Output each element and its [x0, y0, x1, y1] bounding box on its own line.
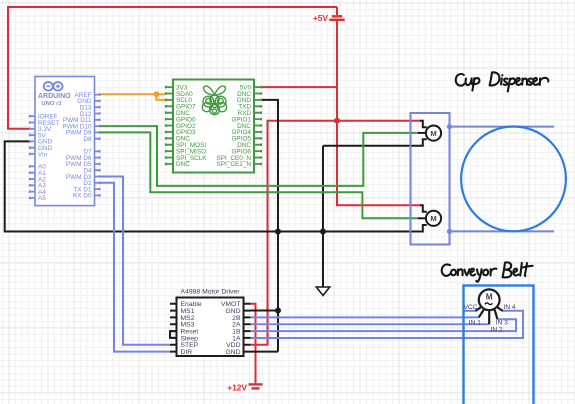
conveyor pin labels: [464, 304, 516, 334]
cup dispenser roller circle: [461, 126, 566, 231]
wire GND A4988 top-right pin: [251, 310, 279, 312]
arduino labels: [38, 92, 92, 202]
node dot top roller wire: [447, 124, 452, 129]
wire blue 1A to IN4: [251, 311, 524, 338]
wire blue 2A to IN2: [251, 323, 490, 325]
raspberry pi U2: [165, 80, 262, 173]
wire red RPi 5V0 to +5V rail: [262, 86, 337, 88]
svg-text:GND: GND: [225, 349, 240, 356]
svg-text:VCC: VCC: [464, 304, 478, 311]
svg-text:SPI_CE1_N: SPI_CE1_N: [217, 161, 252, 168]
wire orange branch to RPi SCL0: [156, 94, 165, 100]
junction dot orange: [153, 91, 159, 97]
conveyor motor M3: [479, 289, 500, 310]
wire GND from Arduino GND pin down and across bus: [5, 141, 421, 231]
node dot bottom roller wire: [447, 229, 452, 234]
handwritten label: Conveyor Belt: [442, 262, 533, 281]
wire GND A4988 bottom-right pin: [251, 351, 279, 353]
wire +5V supply drop to bus: [336, 7, 338, 15]
svg-text:M: M: [486, 292, 493, 301]
raspberry pi logo: [202, 86, 226, 115]
wire roller bottom: [450, 230, 555, 232]
wire red VMOT to +12V: [251, 304, 256, 384]
svg-text:Vin: Vin: [38, 151, 48, 158]
wire green Arduino D9 to motor2: [101, 132, 418, 218]
raspberry pi labels: [176, 84, 251, 168]
wire red VDD net to motor1: [251, 121, 422, 345]
junction dot +5V/VDD net: [334, 118, 340, 124]
handwritten label: Cup Dispenser: [456, 72, 549, 91]
svg-text:A5: A5: [38, 195, 46, 202]
A4988 pin labels: [181, 301, 241, 356]
svg-text:IN 3: IN 3: [496, 320, 508, 327]
wire blue Arduino D2 to DIR: [101, 183, 171, 352]
wire green Arduino D10 to motor1: [101, 126, 418, 186]
svg-text:IN 2: IN 2: [491, 327, 503, 334]
wire +5V vertical down to motor2 red feed: [337, 20, 421, 206]
wire blue 2B to IN1: [251, 316, 480, 318]
svg-text:ARDUINO: ARDUINO: [38, 93, 71, 100]
svg-text:M: M: [430, 214, 436, 223]
svg-text:IN 1: IN 1: [469, 320, 481, 327]
junction dot GND bus / RPi gnd: [275, 229, 281, 235]
svg-text:D8: D8: [83, 136, 92, 143]
ground symbol: [316, 287, 329, 296]
svg-text:UNO r3: UNO r3: [41, 101, 62, 107]
svg-text:DIR: DIR: [181, 349, 193, 356]
wire blue 1B to IN3: [251, 319, 517, 331]
wire +5V rail from Arduino 3.3V pin to +5V supply: [8, 7, 337, 129]
motor tilde: [485, 303, 493, 305]
svg-text:M: M: [430, 129, 436, 138]
wire GND motor1 feed: [323, 145, 421, 147]
svg-text:IN 4: IN 4: [504, 304, 516, 311]
motor M2 connector: [418, 205, 427, 231]
motor M1 connector: [418, 121, 427, 146]
motor M1: [426, 126, 441, 141]
+5V supply symbol: [329, 16, 344, 20]
cup dispenser frame: [411, 113, 450, 245]
svg-text:A4988 Motor Driver: A4988 Motor Driver: [181, 289, 241, 296]
arduino U1 (Arduino UNO r3): [29, 77, 101, 206]
motor M2: [426, 211, 441, 226]
wire blue VCC stub: [464, 310, 477, 312]
wire blue Arduino D3 to STEP: [101, 177, 171, 345]
+12V supply symbol: [249, 384, 263, 388]
svg-text:+12V: +12V: [227, 382, 247, 392]
conveyor belt frame: [464, 286, 534, 404]
svg-text:+5V: +5V: [313, 13, 329, 23]
wire roller top: [450, 126, 555, 128]
A4988 motor driver U3: [170, 298, 251, 357]
wire GND stem to ground symbol: [322, 146, 324, 287]
conveyor stepper motor legs: [476, 306, 503, 324]
svg-text:DNC: DNC: [176, 161, 190, 168]
junction dot GND bus / ground stem: [320, 229, 326, 235]
svg-text:RX D0: RX D0: [73, 193, 92, 200]
junction dot RPi gnd / A4988 gnd: [275, 308, 281, 314]
A4988 reset-sleep jumper wire: [170, 331, 177, 338]
arduino logo: [44, 82, 63, 91]
wire GND RPi vertical: [262, 100, 278, 352]
wire orange AREF to RPi SDA0: [101, 93, 166, 95]
